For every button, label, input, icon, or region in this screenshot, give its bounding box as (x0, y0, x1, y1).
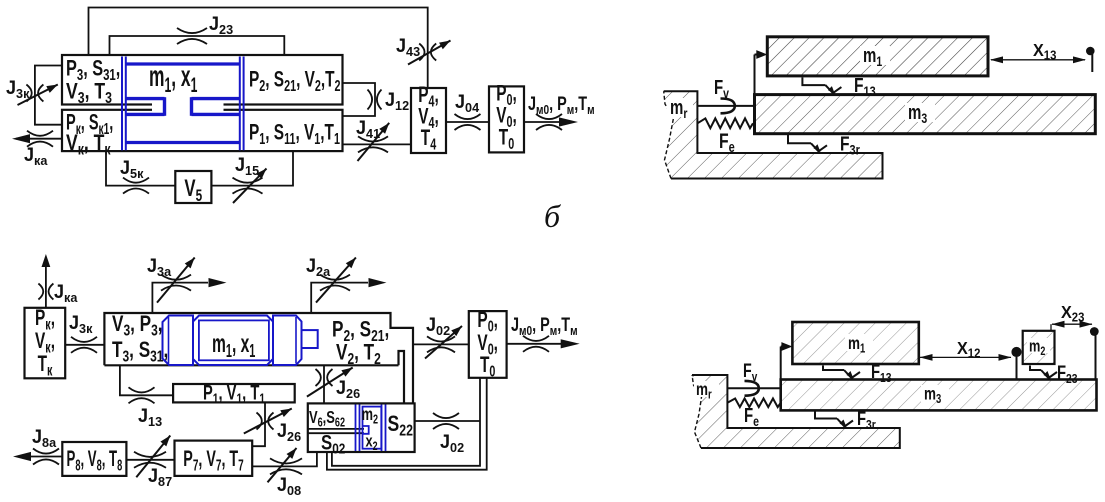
svg-text:m1​, x1​: m1​, x1​ (212, 329, 255, 362)
svg-text:P1​, V1​, T1​: P1​, V1​, T1​ (203, 381, 265, 407)
svg-text:P8​, V8​, T8​: P8​, V8​, T8​ (67, 447, 123, 474)
svg-text:б: б (544, 198, 561, 234)
svg-text:P7​, V7​, T7​: P7​, V7​, T7​ (183, 446, 243, 474)
svg-text:Vк​, Tк​: Vк​, Tк​ (66, 131, 111, 157)
svg-text:m1​, x1​: m1​, x1​ (149, 60, 198, 97)
